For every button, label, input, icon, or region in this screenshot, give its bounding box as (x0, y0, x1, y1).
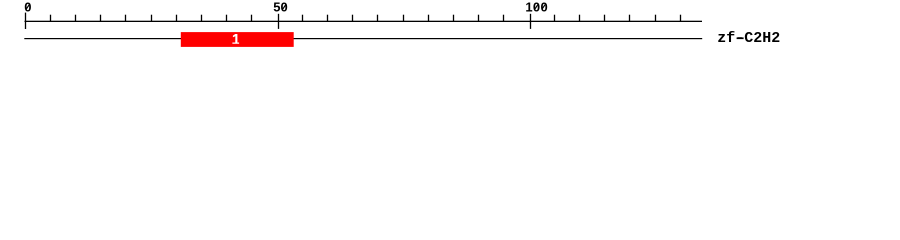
background (0, 0, 900, 58)
ruler axis line (25, 21, 703, 22)
major tick 100 (530, 14, 531, 29)
hyphen widener in zf-C2H2 label (737, 37, 744, 39)
major tick 0 (25, 13, 26, 29)
slash of zero in label 50 (283, 5, 286, 10)
svg-text:50: 50 (273, 0, 287, 15)
sequence line (24, 38, 702, 39)
svg-text:zf-C2H2: zf-C2H2 (717, 30, 780, 47)
slash of second zero in label 100 (542, 5, 545, 10)
slash of zero in label 0 (26, 5, 29, 10)
domain box (zf-C2H2 occurrence 1) (181, 32, 294, 47)
domain number 1 (white glyph with foot serif) (232, 34, 239, 44)
slash of first zero in label 100 (535, 5, 538, 10)
major tick 50 (278, 14, 279, 29)
minor ticks (50, 15, 681, 22)
